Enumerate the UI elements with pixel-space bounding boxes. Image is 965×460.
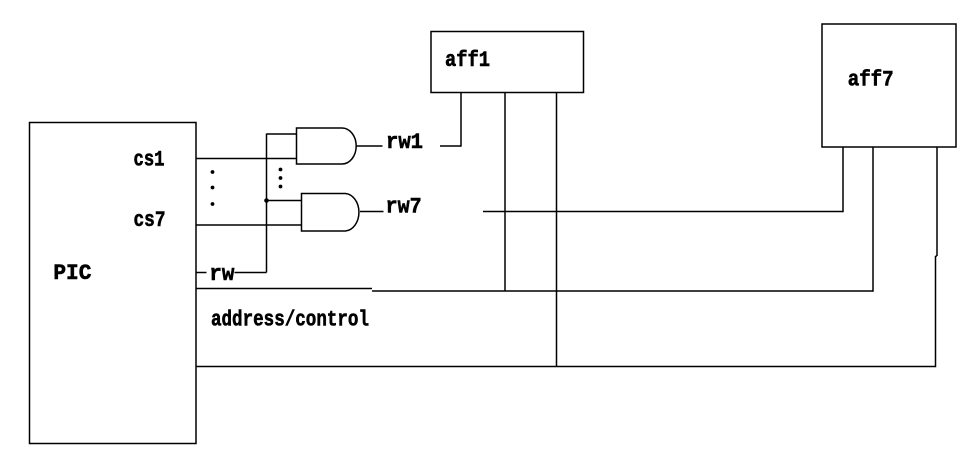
wire rw7 vertical into aff7	[842, 147, 844, 212]
wire rw1 vertical into aff1	[460, 93, 462, 147]
wire rw net horizontal to rail	[235, 272, 267, 274]
wire address/control bus2 horizontal	[196, 366, 936, 368]
svg-text:rw: rw	[209, 263, 235, 288]
label PIC	[53, 262, 91, 287]
svg-text:aff1: aff1	[445, 49, 490, 74]
label rw7	[386, 196, 422, 221]
wire rw1: G1 output	[356, 145, 382, 147]
label aff1	[445, 49, 490, 74]
svg-text:aff7: aff7	[848, 68, 894, 93]
wire rw net left stub from PIC	[196, 272, 207, 274]
wire rw7: G2 output	[360, 211, 384, 213]
svg-text:PIC: PIC	[53, 262, 91, 287]
svg-text:rw1: rw1	[386, 131, 423, 156]
wire rw vertical rail	[266, 134, 268, 273]
label rw1	[386, 131, 423, 156]
aff7 block	[822, 24, 956, 147]
label address/control	[211, 308, 369, 333]
label cs1	[134, 148, 165, 173]
wire address/control bus1 right segment	[372, 290, 873, 292]
svg-text:cs7: cs7	[134, 209, 166, 234]
wire aff1 address drop to bus2	[556, 93, 558, 367]
AND gate G1 (cs1 AND rw -> rw1)	[297, 128, 357, 164]
wire rw7 long run to aff7	[483, 211, 843, 213]
wire bus2 vertical jog	[936, 255, 938, 257]
PIC block U1	[30, 123, 197, 444]
ellipsis dots between cs1 and cs7	[211, 170, 215, 174]
wire rw to G1 upper input	[267, 133, 297, 135]
svg-text:address/control: address/control	[211, 308, 369, 333]
aff1 block	[431, 32, 584, 93]
wire cs7 net: PIC to AND gate G2 lower input	[196, 224, 302, 226]
AND gate G2 (cs7 AND rw -> rw7)	[302, 194, 359, 232]
wire bus2 vertical from aff7 upper part	[936, 147, 938, 256]
svg-text:cs1: cs1	[134, 148, 165, 173]
wire bus2 vertical lower part	[935, 256, 937, 367]
svg-text:rw7: rw7	[386, 196, 422, 221]
wire bus1 vertical into aff7	[872, 147, 874, 292]
wire aff1 address drop to bus1	[504, 93, 506, 292]
wire rw1 stub to aff1	[440, 145, 461, 147]
label rw	[209, 263, 235, 288]
junction on rw rail	[264, 198, 269, 203]
wire cs1 net: PIC to AND gate G1 lower input	[196, 158, 297, 160]
wire rw to G2 upper input	[267, 200, 302, 202]
label cs7	[134, 209, 166, 234]
label aff7	[848, 68, 894, 93]
wire address/control bus1 left segment	[196, 288, 372, 290]
ellipsis dots on rw rail side	[279, 168, 283, 172]
